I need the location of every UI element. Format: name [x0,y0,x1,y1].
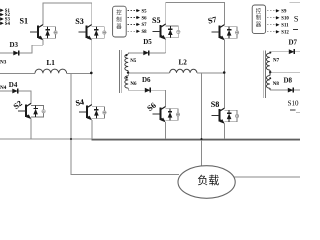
controller box 2 [113,6,127,37]
wire S1 emitter lead [42,40,44,46]
transistor S5 [153,24,181,40]
wire S6 emitter to bottom bus [164,122,166,139]
svg-text:D5: D5 [143,38,152,46]
inductor L1 [35,69,67,73]
svg-text:N5: N5 [130,59,137,64]
wire L1 left lead (from edge) [0,72,35,74]
polarity dot N6 [126,77,128,79]
control signal arrow S1 [0,9,2,11]
wire bottom bus overlay right [91,139,300,141]
svg-text:S10: S10 [281,17,289,22]
svg-text:控: 控 [116,8,122,16]
svg-text:控: 控 [256,7,262,15]
svg-text:D3: D3 [10,41,19,49]
control signal arrow S12 [267,31,277,33]
wire load left branch (down from L1 node) [71,73,179,174]
svg-text:S12: S12 [281,31,289,36]
controller box 3 [252,5,265,34]
svg-text:制: 制 [116,15,121,23]
svg-text:N7: N7 [273,58,280,63]
winding N6 [125,76,128,88]
wire load top branch (L2 node down to load) [201,73,203,166]
svg-text:S7: S7 [207,15,217,26]
svg-text:D7: D7 [289,39,298,47]
node dot L1/leg2 junction [90,72,93,75]
transistor S4 [79,105,107,121]
node dot N5/N6 junction [127,71,129,73]
svg-text:S9: S9 [281,10,287,15]
svg-text:N8: N8 [273,82,280,87]
transistor S1 [30,25,58,41]
transistor S2 [18,103,46,119]
svg-text:D8: D8 [284,77,293,85]
svg-text:S6: S6 [142,16,148,21]
diode D5 [143,50,148,55]
polarity dot N5 [126,54,128,56]
wire D6 net (N6 bottom to S6 collector) [128,90,165,107]
svg-text:L2: L2 [179,58,188,66]
svg-text:N6: N6 [130,82,137,87]
diode D6 [145,88,150,93]
node dot N7/N8 junction [269,71,271,73]
svg-text:负载: 负载 [197,173,219,187]
transistor S6 [152,107,180,123]
svg-text:S7: S7 [142,23,148,28]
svg-text:S5: S5 [142,9,148,14]
svg-text:S4: S4 [75,97,85,107]
svg-text:S1: S1 [20,17,29,26]
wire S8 emitter to bottom bus [224,124,226,139]
winding N8 [266,76,269,89]
wire S4 emitter to bottom bus [91,120,93,139]
node dot load-top crosses bus [201,138,203,140]
svg-text:S5: S5 [152,16,161,25]
transformer core (right block) [262,51,264,99]
wire S5 emitter lead [165,39,167,53]
svg-text:器: 器 [116,23,122,30]
polarity dot N7 [269,52,271,54]
svg-text:S10: S10 [288,100,299,108]
wire N4 to D4 to S2 collector [0,91,31,104]
transistor S7 [212,25,240,41]
transformer core (middle block) [119,50,121,93]
diode D3 [13,51,18,56]
wire N3 to D3 to S1 emitter [0,45,43,53]
control signal arrow S9 [267,10,277,12]
svg-text:D4: D4 [9,81,18,89]
svg-text:S8: S8 [142,30,148,35]
svg-text:S11: S11 [281,24,289,29]
wire bottom bus [0,138,300,140]
polarity dot N8 [269,77,271,79]
wire L1 right lead to leg junction [67,72,92,74]
control signal arrow S7 [128,23,138,25]
svg-text:S8: S8 [211,100,220,109]
svg-text:S3: S3 [75,17,84,26]
control signal arrow S6 [128,17,138,19]
wire N5/N6 junction to L2 [128,72,170,74]
svg-text:制: 制 [256,14,261,22]
load ellipse [178,166,235,199]
diode D4 [12,89,17,94]
wire D8 net (N8 bottom to right edge) [270,89,300,91]
wire S7 emitter to S8 collector [224,40,226,109]
svg-text:N4: N4 [0,85,7,91]
diode D8 [288,88,293,93]
control signal arrow S11 [267,24,277,26]
winding N5 [125,54,128,70]
wire D7 net (N7 top to right edge) [270,51,300,53]
control signal arrow S2 [0,14,2,16]
wire top bus B (S5-S7) [166,3,225,25]
svg-text:S4: S4 [5,22,11,27]
inductor L2 [170,69,197,73]
wire S2 emitter to bottom bus [30,119,32,140]
svg-text:D6: D6 [142,76,151,84]
svg-text:器: 器 [256,21,262,28]
wire S10 gate fragment [290,109,296,111]
wire S3 emitter to S4 collector [91,40,93,106]
diode D7 [289,49,294,54]
control signal arrow S4 [0,22,2,24]
control signal arrow S3 [0,18,2,20]
wire load right lead (to edge) [234,176,300,178]
control signal arrow S10 [267,17,277,19]
node dot S7 leg / L2 wire [223,71,226,74]
control signal arrow S8 [128,30,138,32]
transistor S8 [212,108,240,124]
wire top bus C (right edge, cut) [290,1,301,3]
wire top bus A (S1-S3) [43,3,92,25]
wire S9 gate fragment [293,28,298,30]
node dot load-left crosses bus [70,138,72,140]
svg-text:N3: N3 [0,60,7,66]
control signal arrow S5 [128,10,138,12]
transistor S3 [79,25,107,41]
winding N7 [266,53,269,70]
svg-text:S: S [294,13,299,23]
wire S10 collector fragment [296,111,300,113]
wire N7/N8 junction to right edge [270,71,300,73]
wire L2 right to S7 leg [197,72,225,74]
svg-text:L1: L1 [47,59,56,67]
wire D5 net (N5 top to S5 emitter) [128,52,166,54]
